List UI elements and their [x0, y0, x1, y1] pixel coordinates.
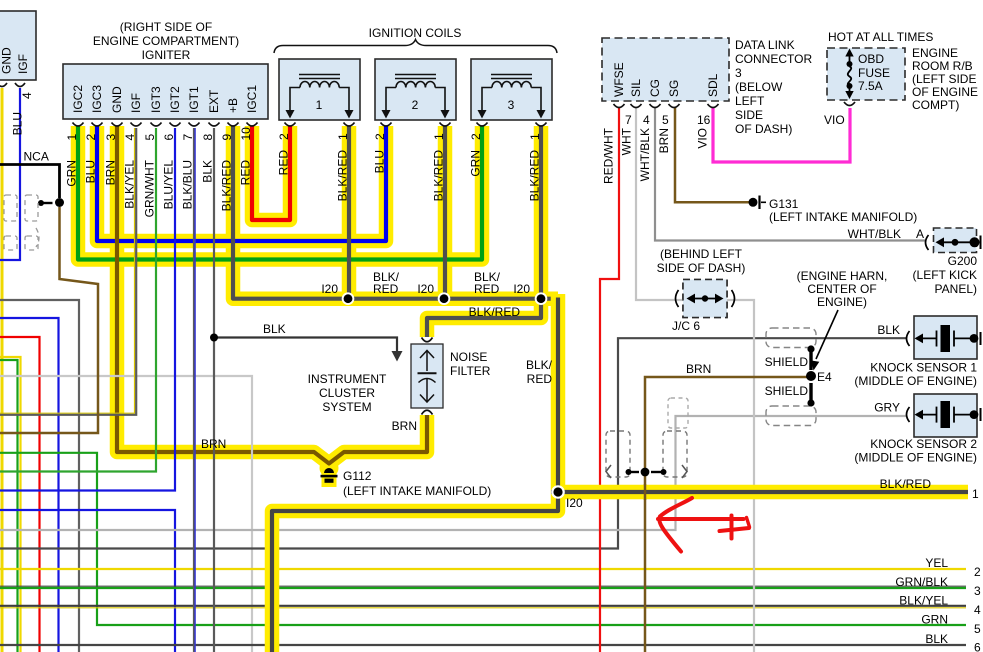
wire BLK/YEL bottom bus (yellow companion) — [0, 607, 966, 609]
pin arcs igniter — [0, 83, 855, 415]
svg-text:GRN/BLK: GRN/BLK — [895, 575, 948, 589]
svg-text:3: 3 — [974, 584, 981, 598]
svg-text:VIO: VIO — [824, 113, 845, 127]
coil pin numbers — [277, 133, 542, 140]
svg-text:OBD: OBD — [858, 52, 884, 66]
svg-text:I20: I20 — [513, 282, 530, 296]
svg-text:I20: I20 — [321, 282, 338, 296]
svg-text:G200: G200 — [948, 254, 978, 268]
svg-text:GRN/WHT: GRN/WHT — [143, 159, 157, 217]
NCA black wire — [0, 165, 60, 199]
ground G112 yellow blob — [320, 459, 339, 478]
pin arcs DLC3 — [614, 104, 625, 108]
wire light gray y376 — [0, 376, 252, 652]
ignition coil 2 box — [375, 59, 456, 120]
svg-text:I20: I20 — [417, 282, 434, 296]
wire coil3 pin1 drop (highlight band) — [534, 126, 549, 299]
svg-text:CLUSTER: CLUSTER — [319, 386, 375, 400]
knock sensor 2 internals — [907, 401, 981, 428]
svg-text:BLK/BLU: BLK/BLU — [181, 160, 195, 209]
svg-text:3: 3 — [508, 98, 515, 112]
wire GRN left edge to bottom GRN bus — [0, 453, 966, 625]
svg-text:BLK/RED: BLK/RED — [220, 160, 234, 212]
svg-text:ROOM R/B: ROOM R/B — [912, 59, 973, 73]
svg-text:GRN: GRN — [921, 613, 948, 627]
svg-text:6: 6 — [162, 134, 176, 141]
wire BRN from NCA junction — [0, 207, 98, 433]
wire blue left edge y318 — [0, 318, 59, 652]
red hand annotation — [658, 498, 750, 552]
wire RED core — [252, 126, 290, 220]
svg-text:BLK/RED: BLK/RED — [336, 150, 350, 202]
wire RED igniter pin10 to coil1 pin2 (highlight band) — [252, 126, 290, 220]
svg-text:IGNITER: IGNITER — [142, 48, 191, 62]
wire BLU igniter pin2 to coil2 pin2 (highlight band) — [97, 126, 386, 241]
svg-text:BRN: BRN — [392, 419, 417, 433]
connector dashes left edge upper pair — [4, 195, 39, 250]
svg-text:BLK/RED: BLK/RED — [469, 305, 521, 319]
wire YEL bottom bus — [0, 568, 966, 570]
wire coil1 pin1 drop (highlight band) — [342, 126, 357, 299]
wire WHT/BLK from DLC3 to G200 — [655, 107, 925, 241]
svg-text:GRY: GRY — [874, 401, 900, 415]
wire red left edge y337 — [0, 337, 40, 652]
wire BLK/RED bus B vertical+left core — [272, 298, 558, 652]
wire VIO from DLC3 SDL to OBD fuse — [713, 107, 850, 162]
svg-text:BLU: BLU — [373, 150, 387, 173]
coil 2 symbol — [386, 75, 445, 112]
svg-text:5: 5 — [974, 622, 981, 636]
svg-text:GND: GND — [110, 86, 124, 113]
svg-text:1: 1 — [432, 133, 446, 140]
svg-text:A: A — [916, 227, 924, 241]
svg-text:(BEHIND LEFT: (BEHIND LEFT — [660, 247, 743, 261]
wire BLU/YEL igniter pin6 — [0, 128, 175, 491]
svg-text:PANEL): PANEL) — [935, 282, 977, 296]
svg-text:5: 5 — [143, 134, 157, 141]
wire BLU core — [97, 126, 386, 241]
svg-text:BLU: BLU — [11, 112, 25, 135]
svg-text:SG: SG — [667, 80, 681, 97]
svg-text:RED/WHT: RED/WHT — [602, 127, 616, 184]
svg-text:4: 4 — [974, 603, 981, 617]
svg-text:(LEFT SIDE: (LEFT SIDE — [912, 72, 976, 86]
HIGHLIGHTED WIRES — [78, 126, 558, 487]
node NCA junction dot — [55, 198, 64, 207]
svg-text:INSTRUMENT: INSTRUMENT — [308, 372, 387, 386]
wire BLK/RED bus B right run (highlight band) — [551, 485, 968, 500]
pin arcs noise filter — [422, 338, 433, 342]
svg-text:E4: E4 — [817, 370, 832, 384]
ground connector G200 box — [934, 228, 977, 253]
junction I20 at coil2 — [438, 292, 451, 305]
svg-text:(LEFT INTAKE MANIFOLD): (LEFT INTAKE MANIFOLD) — [343, 484, 491, 498]
igniter pin labels — [71, 85, 259, 113]
svg-text:KNOCK SENSOR 2: KNOCK SENSOR 2 — [870, 437, 977, 451]
wire BLK/YEL igniter pin4 (yellow companion) — [0, 128, 135, 413]
node E4 — [806, 371, 816, 381]
svg-text:4: 4 — [20, 92, 34, 99]
svg-text:KNOCK SENSOR 1: KNOCK SENSOR 1 — [870, 361, 977, 375]
BRN bus core — [117, 126, 427, 464]
svg-text:IGC3: IGC3 — [90, 85, 104, 113]
svg-text:1: 1 — [65, 134, 79, 141]
igniter wire color labels — [65, 159, 253, 217]
svg-text:WHT/BLK: WHT/BLK — [848, 227, 901, 241]
svg-text:LEFT: LEFT — [735, 94, 765, 108]
coil 3 symbol — [482, 75, 541, 112]
svg-text:1: 1 — [972, 487, 979, 501]
BUS B — [272, 294, 968, 652]
wire BRN crossing over bus B — [644, 484, 647, 500]
OBD fuse box — [827, 48, 905, 100]
wire coil2 pin1 drop (highlight band) — [438, 126, 453, 299]
svg-text:BLU/YEL: BLU/YEL — [162, 160, 176, 210]
J/C 6 box redrawn over wire — [683, 280, 727, 318]
svg-text:IGC2: IGC2 — [71, 85, 85, 113]
svg-text:1: 1 — [316, 98, 323, 112]
svg-text:CENTER OF: CENTER OF — [807, 282, 876, 296]
svg-text:J/C 6: J/C 6 — [672, 319, 700, 333]
wire BRN from DLC3 SG to G131 — [675, 107, 749, 202]
coil 1 symbol — [290, 75, 349, 112]
igniter U1 box — [63, 64, 268, 119]
noise filter branch core — [427, 299, 541, 337]
wire BLK/RED branch to noise filter (highlight band) — [427, 299, 541, 337]
coil2 pin1 core — [443, 126, 447, 299]
svg-text:7.5A: 7.5A — [858, 79, 883, 93]
svg-text:5: 5 — [662, 113, 669, 127]
svg-text:RED: RED — [373, 282, 399, 296]
svg-text:BLK/RED: BLK/RED — [528, 150, 542, 202]
ground G131 symbol — [749, 198, 758, 207]
shield symbol around BLK wire — [766, 328, 816, 348]
svg-text:BLU: BLU — [84, 160, 98, 183]
wire BLK/RED bus B right core — [551, 490, 968, 494]
svg-text:FILTER: FILTER — [450, 364, 491, 378]
svg-text:EXT: EXT — [207, 89, 221, 113]
svg-text:BRN: BRN — [104, 160, 118, 185]
svg-text:16: 16 — [697, 113, 711, 127]
wire gray left edge y300 — [0, 300, 79, 652]
svg-text:2: 2 — [412, 98, 419, 112]
svg-text:BRN: BRN — [657, 128, 671, 153]
coil1 pin1 core — [347, 126, 351, 299]
svg-text:BLK/RED: BLK/RED — [880, 477, 932, 491]
junction I20 at coil1 — [342, 292, 355, 305]
svg-text:IGT1: IGT1 — [187, 86, 201, 113]
svg-text:SDL: SDL — [706, 73, 720, 97]
junction I20 on bus B — [551, 485, 565, 499]
igniter pin numbers — [65, 127, 253, 141]
svg-text:2: 2 — [469, 133, 483, 140]
svg-text:1: 1 — [336, 133, 350, 140]
wire BLK branch to instrument cluster arrow — [214, 338, 397, 353]
wire blue left edge y510 — [0, 510, 175, 652]
arrow from engine-harn note to E4 — [816, 310, 838, 359]
svg-text:SIL: SIL — [629, 79, 643, 97]
svg-text:(LEFT INTAKE MANIFOLD): (LEFT INTAKE MANIFOLD) — [769, 210, 917, 224]
coil arrowheads — [286, 110, 546, 119]
svg-text:RED: RED — [474, 282, 500, 296]
svg-text:ENGINE: ENGINE — [912, 46, 958, 60]
svg-text:(MIDDLE OF ENGINE): (MIDDLE OF ENGINE) — [854, 451, 977, 465]
junction I20 at coil3 — [535, 292, 548, 305]
wire BLK/BLU igniter pin7 (blue companion) — [194, 128, 196, 652]
pin arcs coils — [285, 123, 296, 127]
wire BLK/RED bus A from igniter pin9 (highlight band) — [233, 126, 558, 299]
coil symbols — [290, 75, 541, 112]
ignition coil 3 box — [471, 59, 552, 120]
DLC3 wire labels — [602, 127, 710, 184]
svg-text:GRN: GRN — [469, 150, 483, 177]
wire BLK knock sensor 1: left edge y548.5 up at 618 to sensor — [0, 338, 906, 548]
wire green left edge y359.5 — [0, 360, 18, 652]
wire GRN/BLK bottom bus (black companion) — [0, 585, 966, 587]
svg-text:BLK/YEL: BLK/YEL — [899, 594, 948, 608]
svg-text:7: 7 — [181, 134, 195, 141]
coil3 pin1 core — [539, 126, 543, 299]
ground G112 symbol — [321, 468, 338, 483]
svg-text:CONNECTOR: CONNECTOR — [735, 52, 812, 66]
svg-text:BLK/RED: BLK/RED — [432, 150, 446, 202]
svg-text:FUSE: FUSE — [858, 66, 890, 80]
svg-text:BLK: BLK — [263, 322, 286, 336]
svg-text:BLK: BLK — [201, 160, 215, 183]
svg-text:NOISE: NOISE — [450, 350, 487, 364]
svg-text:RED: RED — [527, 372, 553, 386]
wire GRN igniter pin1 to coil3 pin2 (highlight band) — [78, 126, 482, 260]
wire WHT from DLC3 through J/C6 — [636, 107, 754, 652]
svg-text:(LEFT KICK: (LEFT KICK — [913, 268, 977, 282]
svg-text:BRN: BRN — [201, 437, 226, 451]
svg-text:IGT3: IGT3 — [149, 86, 163, 113]
svg-text:IGNITION COILS: IGNITION COILS — [369, 26, 462, 40]
svg-text:GND: GND — [0, 47, 14, 74]
wire RED/WHT from DLC3 — [600, 107, 619, 652]
svg-text:SYSTEM: SYSTEM — [322, 400, 371, 414]
brace over ignition coils — [274, 40, 557, 54]
svg-text:BLK: BLK — [925, 632, 948, 646]
svg-text:3: 3 — [735, 66, 742, 80]
shield symbol around GRY wire — [766, 406, 816, 426]
COMPONENT FILLS — [0, 11, 977, 437]
svg-text:SHIELD: SHIELD — [765, 384, 809, 398]
svg-text:6: 6 — [974, 641, 981, 652]
instrument cluster arrowhead — [392, 351, 403, 362]
wire BLK/RED bus A core — [233, 126, 558, 299]
fuse symbol — [848, 53, 851, 95]
svg-text:OF DASH): OF DASH) — [735, 122, 792, 136]
wire yellow left edge y357 — [0, 357, 21, 652]
svg-text:SIDE OF DASH): SIDE OF DASH) — [657, 261, 746, 275]
wire GRN/BLK bottom bus — [0, 587, 966, 589]
svg-text:3: 3 — [104, 134, 118, 141]
svg-text:G131: G131 — [769, 197, 799, 211]
svg-text:CG: CG — [648, 79, 662, 97]
svg-text:2: 2 — [373, 133, 387, 140]
wire BRN bus: noise filter bottom to G112 dip to igniter pin3 (highlight band) — [117, 126, 427, 464]
svg-text:2: 2 — [974, 565, 981, 579]
svg-text:WHT: WHT — [620, 127, 634, 155]
svg-text:BLK/YEL: BLK/YEL — [123, 160, 137, 209]
pin arcs GND/IGF box — [0, 83, 7, 87]
wire BLK/RED bus B vertical+left portion (highlight band) — [272, 294, 558, 652]
junction connector J/C 6 box — [683, 280, 727, 318]
svg-text:(MIDDLE OF ENGINE): (MIDDLE OF ENGINE) — [854, 374, 977, 388]
wire BLU from IGF pin 4 to left edge — [0, 88, 20, 260]
svg-text:BLK/: BLK/ — [526, 358, 553, 372]
svg-text:GRN: GRN — [65, 160, 79, 187]
svg-text:2: 2 — [84, 134, 98, 141]
svg-text:10: 10 — [239, 127, 253, 141]
svg-text:(ENGINE HARN,: (ENGINE HARN, — [797, 269, 888, 283]
noise filter box — [411, 344, 443, 408]
wire BLK/YEL bottom bus — [0, 605, 966, 607]
svg-text:ENGINE COMPARTMENT): ENGINE COMPARTMENT) — [93, 34, 239, 48]
svg-text:I20: I20 — [566, 496, 583, 510]
wire BLK/BLU igniter pin7 — [193, 128, 195, 652]
svg-text:BRN: BRN — [686, 362, 711, 376]
svg-text:SIDE: SIDE — [735, 108, 763, 122]
svg-text:RED: RED — [277, 150, 291, 176]
shield drain wires and E4 node — [809, 349, 812, 370]
NCA stub dot and line — [41, 202, 53, 204]
wire GRN/WHT igniter pin5 — [0, 128, 156, 472]
svg-text:YEL: YEL — [925, 556, 948, 570]
DLC3 pin labels — [612, 62, 720, 97]
svg-text:IGC1: IGC1 — [245, 85, 259, 113]
svg-text:OF ENGINE: OF ENGINE — [912, 85, 978, 99]
coil wire labels — [277, 150, 542, 202]
ignition coil 1 box — [279, 59, 360, 120]
svg-text:ENGINE): ENGINE) — [817, 295, 867, 309]
svg-text:COMPT): COMPT) — [912, 98, 959, 112]
knock sensor 1 internals — [907, 325, 981, 352]
data link connector 3 box — [602, 38, 729, 101]
wire GRN core — [78, 126, 482, 260]
wire BLK/YEL igniter pin4 — [0, 128, 136, 415]
wire BLK igniter pin8 — [213, 128, 215, 652]
svg-text:4: 4 — [123, 134, 137, 141]
wire GRY knock sensor 2: left edge y530 up at 675.5 to sensor — [0, 416, 906, 530]
pin arc fuse — [844, 102, 855, 106]
svg-text:RED: RED — [239, 160, 253, 186]
svg-text:(RIGHT SIDE OF: (RIGHT SIDE OF — [120, 20, 212, 34]
G200 internals — [926, 235, 929, 250]
noise filter internals — [418, 351, 437, 403]
svg-text:BLK: BLK — [877, 323, 900, 337]
knock sensor 1 box — [914, 316, 977, 359]
svg-text:4: 4 — [643, 113, 650, 127]
svg-text:1: 1 — [528, 133, 542, 140]
inline connector on BRN wire — [606, 431, 687, 477]
svg-text:IGT2: IGT2 — [168, 86, 182, 113]
svg-text:HOT AT ALL TIMES: HOT AT ALL TIMES — [828, 30, 933, 44]
svg-text:9: 9 — [220, 134, 234, 141]
svg-text:SHIELD: SHIELD — [765, 355, 809, 369]
svg-text:2: 2 — [277, 133, 291, 140]
wire BLK bottom bus — [0, 644, 966, 646]
svg-text:NCA: NCA — [24, 150, 49, 164]
svg-text:(BELOW: (BELOW — [735, 80, 783, 94]
svg-text:WHT/BLK: WHT/BLK — [638, 128, 652, 181]
svg-text:7: 7 — [625, 113, 632, 127]
svg-text:WFSE: WFSE — [612, 62, 626, 97]
wire BRN to E4 ground — [645, 377, 808, 652]
wire WHT(yellow) from GND pin down left edge — [1, 88, 4, 652]
svg-text:VIO: VIO — [696, 128, 710, 149]
J/C 6 internals — [676, 290, 735, 307]
svg-text:+B: +B — [226, 98, 240, 113]
svg-text:IGF: IGF — [16, 54, 30, 74]
knock sensor 2 box — [914, 394, 977, 437]
svg-text:8: 8 — [201, 134, 215, 141]
inline connector marks on GRY wire — [668, 398, 688, 428]
connector box GND/IGF (top-left, cut by edge) — [0, 11, 36, 80]
junction dot BLK instrument cluster branch — [210, 334, 218, 342]
svg-text:IGF: IGF — [129, 93, 143, 113]
svg-text:G112: G112 — [343, 469, 372, 483]
svg-text:DATA LINK: DATA LINK — [735, 38, 795, 52]
